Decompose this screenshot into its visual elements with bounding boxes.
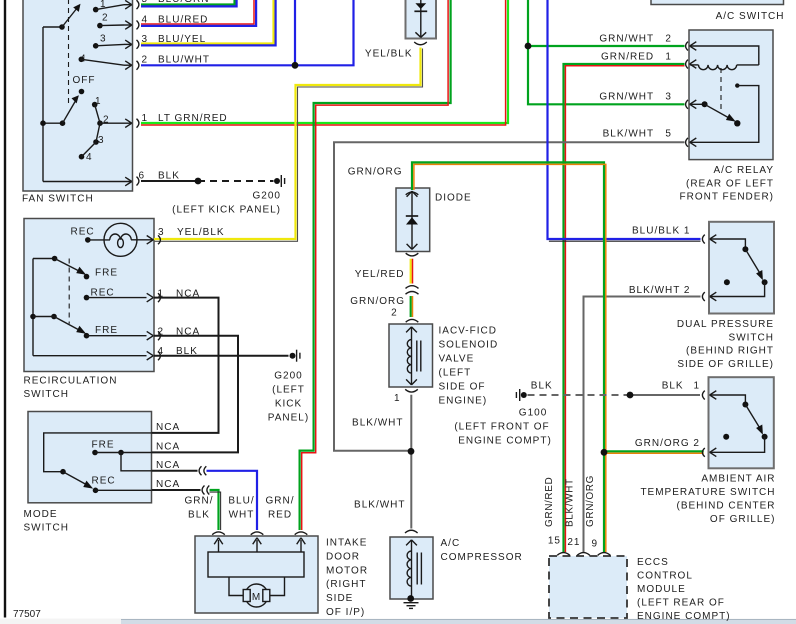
inline connector on BLU/WHT mode wire [199,466,206,475]
wire NCA from recirculation pin 1 to mode switch [152,298,219,433]
svg-text:GRN/: GRN/ [185,496,214,507]
svg-text:(RIGHT: (RIGHT [326,579,366,590]
svg-text:WHT: WHT [229,510,255,521]
A/C switch box (cut off top) [651,0,784,5]
junction dot GRN/ORG at ambient branch [601,449,608,456]
IACV-FICD solenoid valve internals [406,327,421,385]
diode internals [406,191,418,250]
ground at A/C compressor [404,603,419,609]
svg-text:2: 2 [391,308,398,319]
wire BLU/YEL from fan switch pin 3 [141,0,276,45]
svg-text:BLU/BLK 1: BLU/BLK 1 [632,226,690,237]
svg-text:FRE: FRE [92,440,115,451]
svg-text:MOTOR: MOTOR [326,565,368,576]
wire BLU/WHT from fan switch pin 2 [141,0,354,65]
svg-text:LT GRN/RED: LT GRN/RED [158,113,228,124]
svg-text:YEL/BLK: YEL/BLK [365,49,413,60]
dual pressure switch internals [710,235,768,301]
svg-text:A/C RELAY: A/C RELAY [714,165,775,176]
recirculation switch box [24,219,154,372]
IACV-FICD solenoid valve box [389,324,433,387]
svg-text:G100: G100 [519,408,547,419]
label INTAKE DOOR MOTOR [326,538,368,619]
svg-text:ECCS: ECCS [637,557,669,568]
intake door motor internals [208,538,305,607]
junction dot BLK/WHT above compressor [408,448,415,455]
svg-text:NCA: NCA [176,327,200,338]
wire GRN/BLK from inline connector to intake door motor [210,490,221,530]
wire BLU/GRN from fan switch pin 5 [141,0,237,6]
A/C compressor top connector [405,530,418,533]
solenoid valve bottom connector [405,389,418,392]
svg-text:1: 1 [394,393,401,404]
svg-text:AMBIENT AIR: AMBIENT AIR [701,474,775,485]
svg-text:2: 2 [141,55,148,66]
svg-text:KICK: KICK [275,399,302,410]
junction dot BLU/WHT [292,62,299,69]
mode switch box [28,412,152,503]
diode top connector [406,192,419,195]
bottom scrollbar strip [0,619,796,624]
svg-text:ENGINE COMPT): ENGINE COMPT) [458,436,552,447]
wire BLU/WHT from inline connector to intake door motor [207,471,258,530]
svg-text:BLK: BLK [176,346,198,357]
svg-text:GRN/: GRN/ [266,496,295,507]
svg-text:4: 4 [157,346,164,357]
svg-text:2: 2 [103,115,110,126]
diode bottom connector [406,253,419,256]
svg-text:(LEFT: (LEFT [439,368,472,379]
svg-text:21: 21 [567,537,580,548]
wire BLU/BLK from A/C switch down to dual pressure switch pin 1 [548,0,701,241]
svg-text:NCA: NCA [156,479,180,490]
svg-text:1: 1 [157,289,164,300]
svg-text:GRN/ORG: GRN/ORG [350,296,405,307]
svg-text:(LEFT FRONT OF: (LEFT FRONT OF [454,422,549,433]
svg-text:3: 3 [98,135,105,146]
wire GRN/WHT from A/C switch to relay pins 2 and 3 [528,0,685,104]
wire BLK/WHT from dual pressure switch pin 2 down to ECCS pin 21 [584,297,701,553]
svg-text:GRN/ORG 2: GRN/ORG 2 [635,438,700,449]
svg-text:(LEFT: (LEFT [272,385,305,396]
fan switch internals [40,0,132,186]
wire GRN/ORG between inline connector and solenoid valve pin 2 [411,296,413,317]
svg-text:RECIRCULATION: RECIRCULATION [24,376,118,387]
svg-text:FAN SWITCH: FAN SWITCH [22,194,94,205]
ECCS pin connectors [557,553,610,556]
svg-text:CONTROL: CONTROL [637,571,693,582]
svg-text:OFF: OFF [73,75,96,86]
svg-text:3: 3 [141,34,148,45]
dual pressure switch box [709,222,774,314]
svg-text:(BEHIND RIGHT: (BEHIND RIGHT [686,346,774,357]
wire LT GRN/RED from fan switch pin 1 to A/C switch [141,0,508,125]
svg-text:YEL/BLK: YEL/BLK [177,227,225,238]
svg-text:(REAR OF LEFT: (REAR OF LEFT [686,178,774,189]
svg-text:4: 4 [141,15,148,26]
svg-text:1: 1 [141,113,148,124]
svg-text:MODE: MODE [24,509,58,520]
svg-text:77507: 77507 [13,609,41,620]
svg-text:BLK: BLK [662,381,684,392]
svg-text:4: 4 [86,152,93,163]
svg-text:FRONT FENDER): FRONT FENDER) [680,192,774,203]
svg-text:IACV-FICD: IACV-FICD [439,326,497,337]
mode switch labels [92,422,181,490]
label DUAL PRESSURE SWITCH [677,319,774,370]
label ECCS CONTROL MODULE [637,557,731,622]
svg-text:BLK/WHT: BLK/WHT [565,478,576,527]
wire GRN/ORG branch to ambient air temperature switch pin 2 [604,451,704,453]
svg-text:OF GRILLE): OF GRILLE) [710,514,776,525]
svg-text:REC: REC [71,227,95,238]
svg-text:MODULE: MODULE [637,584,686,595]
junction dot BLK near G100 [627,392,634,399]
svg-text:1: 1 [95,96,102,107]
svg-text:YEL/RED: YEL/RED [355,269,405,280]
svg-text:5: 5 [141,0,148,5]
svg-text:SWITCH: SWITCH [729,332,774,343]
svg-text:9: 9 [591,539,598,550]
svg-text:GRN/WHT 3: GRN/WHT 3 [599,91,672,102]
blower resistor bottom connector [414,42,427,45]
wire BLK/WHT from solenoid valve pin 1 down through junction to compressor [410,395,412,529]
A/C relay internals [690,42,759,147]
svg-text:A/C: A/C [441,538,461,549]
blower resistor (top, cut off) box [406,0,437,39]
ground G200 (left kick panel) at recirculation switch [290,350,300,362]
page border (left edge of diagram sheet) [4,0,6,618]
A/C compressor box [390,537,433,599]
svg-text:DIODE: DIODE [435,193,472,204]
intake door motor box [195,536,318,613]
svg-text:BLK/WHT: BLK/WHT [354,500,405,511]
wire GRN/RED from A/C relay pin 1 down to ECCS pin 15 [564,64,685,552]
svg-text:SIDE OF: SIDE OF [439,382,486,393]
wire NCA from mode switch to inline connector (GRN/BLK) [152,489,201,491]
svg-text:(LEFT KICK PANEL): (LEFT KICK PANEL) [172,205,281,216]
fan switch box [23,0,133,191]
wire BLU/RED from fan switch pin 4 [141,0,256,26]
fan switch internal position labels [73,0,110,163]
svg-text:VALVE: VALVE [439,354,475,365]
svg-text:4: 4 [80,54,87,65]
diode D1 box [396,188,430,252]
label G200 (left kick panel) at recirc [268,371,309,424]
fan switch pin connectors [137,0,139,185]
svg-text:BLK/WHT 2: BLK/WHT 2 [629,285,691,296]
intake motor wire labels [185,496,295,521]
ambient air temperature switch internals [710,391,768,457]
svg-text:SOLENOID: SOLENOID [439,340,499,351]
svg-text:GRN/WHT 2: GRN/WHT 2 [599,33,672,44]
svg-text:GRN/ORG: GRN/ORG [348,167,403,178]
svg-text:BLU/GRN: BLU/GRN [158,0,209,5]
inline connector on YEL/RED / GRN/ORG wire [406,286,419,295]
label IACV-FICD SOLENOID VALVE [439,326,499,407]
mode switch internals [44,433,152,493]
svg-text:BLK/WHT: BLK/WHT [352,418,403,429]
svg-text:NCA: NCA [156,422,180,433]
svg-text:M: M [252,592,261,603]
svg-text:(LEFT REAR OF: (LEFT REAR OF [637,597,725,608]
A/C relay pin labels [599,33,672,139]
svg-text:ENGINE COMPT): ENGINE COMPT) [637,611,731,622]
svg-text:OF I/P): OF I/P) [326,607,365,618]
svg-text:DOOR: DOOR [326,551,360,562]
wire BLK dashed from G100 to junction dot [528,394,631,396]
A/C relay box [689,30,773,160]
junction dot BLK near fan pin 6 [195,178,202,185]
ECCS control module box (dashed) [549,556,627,618]
svg-text:BLK: BLK [158,171,180,182]
svg-text:BLK: BLK [531,381,553,392]
svg-text:RED: RED [268,510,292,521]
solenoid valve top connector [406,319,419,322]
svg-text:(BEHIND CENTER: (BEHIND CENTER [676,501,775,512]
svg-text:SWITCH: SWITCH [24,389,69,400]
wire BLK/WHT from A/C relay pin 5 to junction above compressor [334,142,685,450]
wire NCA from mode switch to inline connector (BLU/WHT) [152,470,198,472]
svg-text:BLU/RED: BLU/RED [158,15,208,26]
ambient air temperature switch box [709,377,774,468]
junction dot GRN/WHT at relay feed [525,43,532,50]
wire GRN/RED from top (A/C switch area) down to intake door motor [300,0,451,530]
svg-text:FRE: FRE [95,325,118,336]
intake door motor top connectors [212,532,307,535]
svg-text:2: 2 [157,327,164,338]
svg-text:NCA: NCA [156,442,180,453]
A/C relay pin connectors [686,42,688,147]
ground G100 (left front of engine compt) [516,389,526,401]
blower resistor internals (cut off at top) [414,0,427,37]
svg-text:NCA: NCA [156,460,180,471]
svg-text:DUAL PRESSURE: DUAL PRESSURE [677,319,774,330]
svg-text:ENGINE): ENGINE) [439,396,488,407]
svg-text:TEMPERATURE SWITCH: TEMPERATURE SWITCH [640,487,775,498]
wire NCA from recirculation pin 2 to mode switch [152,336,238,453]
svg-text:BLK: BLK [188,510,210,521]
wire BLK from recirculation pin 4 to G200 [154,355,289,357]
svg-text:6: 6 [138,171,145,182]
svg-text:SIDE: SIDE [326,593,353,604]
wire YEL/BLK from recirculation switch pin 3 up to blower resistor [154,48,423,242]
recirculation switch labels [71,227,225,358]
svg-text:BLK/WHT 5: BLK/WHT 5 [603,129,672,140]
label A/C RELAY [680,165,774,203]
svg-text:SWITCH: SWITCH [24,523,69,534]
svg-text:FRE: FRE [95,268,118,279]
svg-text:BLU/WHT: BLU/WHT [158,55,210,66]
ECCS rotated wire labels [544,475,596,527]
svg-text:GRN/RED 1: GRN/RED 1 [601,52,672,63]
svg-text:G200: G200 [253,191,281,202]
svg-text:REC: REC [92,476,116,487]
inline connector on GRN/BLK mode wire [202,486,209,495]
svg-text:BLU/YEL: BLU/YEL [158,34,206,45]
svg-text:BLU/: BLU/ [228,496,254,507]
wire YEL/RED between diode and inline connector [411,259,413,284]
svg-text:1: 1 [693,381,700,392]
svg-text:3: 3 [100,34,107,45]
label AMBIENT AIR TEMPERATURE SWITCH [640,474,775,526]
fan switch pin labels [138,0,227,182]
wire GRN/ORG from diode top across and down to ECCS pin 9 [412,162,606,552]
svg-text:SIDE OF GRILLE): SIDE OF GRILLE) [677,359,774,370]
wire BLU/WHT branch up at junction [294,0,296,65]
svg-text:COMPRESSOR: COMPRESSOR [441,552,523,563]
svg-text:15: 15 [548,536,561,547]
svg-text:REC: REC [91,288,115,299]
svg-text:NCA: NCA [176,289,200,300]
svg-text:INTAKE: INTAKE [326,538,367,549]
ground G200 (left kick panel) at fan switch [274,175,285,187]
wire BLK from fan switch pin 6 (solid then dashed to G200) [141,180,274,182]
recirculation switch pin connectors [158,235,160,360]
recirculation switch internals [30,223,153,360]
A/C compressor internals [406,540,421,602]
svg-text:2: 2 [102,13,109,24]
svg-text:1: 1 [100,0,107,10]
svg-text:GRN/ORG: GRN/ORG [585,475,596,527]
wire BLK from junction to ambient air temperature switch pin 1 [630,394,700,396]
svg-text:G200: G200 [274,371,302,382]
svg-text:PANEL): PANEL) [268,413,309,424]
dual pressure switch pin connectors [702,235,704,301]
svg-text:3: 3 [158,227,165,238]
svg-text:GRN/RED: GRN/RED [544,477,555,527]
ambient air temperature switch pin connectors [702,391,704,457]
svg-text:A/C SWITCH: A/C SWITCH [716,11,785,22]
